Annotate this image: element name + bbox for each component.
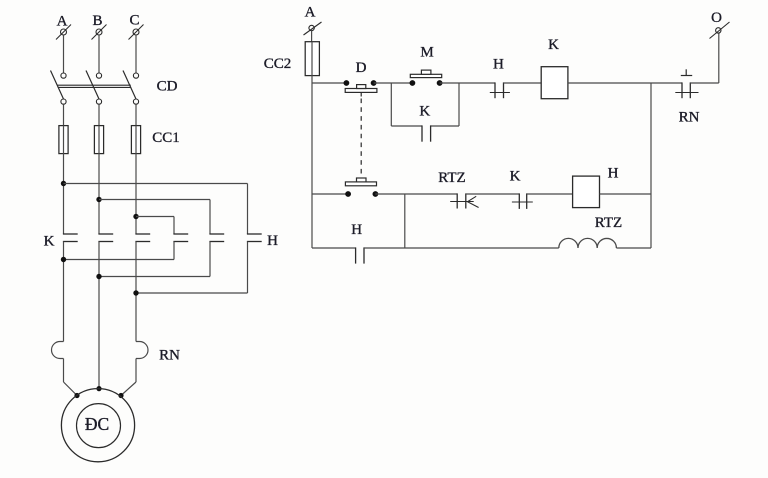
contact H (NC) bbox=[490, 82, 510, 98]
wire bbox=[247, 184, 249, 235]
terminal A (control) bbox=[304, 22, 322, 35]
wire bbox=[440, 82, 495, 84]
overload RN heater left bbox=[52, 342, 64, 359]
fuse CC1 bbox=[94, 126, 103, 154]
wire bbox=[135, 104, 137, 125]
coil H bbox=[573, 176, 600, 208]
pushbutton M bbox=[410, 70, 443, 86]
wire bbox=[63, 154, 65, 234]
svg-text:ĐC: ĐC bbox=[85, 414, 109, 434]
terminal O bbox=[710, 22, 730, 39]
wire bbox=[135, 154, 137, 234]
svg-text:D: D bbox=[356, 60, 367, 76]
wire bbox=[209, 242, 211, 277]
svg-text:K: K bbox=[510, 169, 521, 185]
contact K (aux) bbox=[512, 193, 533, 209]
switch CD upper contact bbox=[96, 73, 101, 78]
wire bbox=[121, 359, 136, 396]
wire bbox=[312, 82, 346, 84]
wire bbox=[690, 82, 719, 84]
wire bbox=[504, 82, 542, 84]
node B label bbox=[92, 13, 102, 29]
wire bbox=[63, 104, 65, 125]
wire bbox=[136, 292, 248, 294]
wire bbox=[458, 83, 460, 126]
svg-text:H: H bbox=[608, 166, 619, 182]
svg-text:B: B bbox=[92, 13, 102, 29]
wire bbox=[98, 242, 100, 390]
contact RTZ label bbox=[438, 170, 465, 186]
contact H (aux NO) bbox=[356, 247, 364, 263]
fuse CC1 bbox=[131, 126, 140, 154]
overload RN label bbox=[159, 348, 180, 364]
switch CD label bbox=[157, 79, 178, 95]
terminal C bbox=[129, 25, 144, 40]
contactor K main contact 2 bbox=[98, 234, 113, 242]
svg-text:H: H bbox=[267, 233, 278, 249]
contact H label bbox=[493, 57, 504, 73]
svg-text:RTZ: RTZ bbox=[595, 215, 622, 231]
wire bbox=[375, 193, 457, 195]
wire bbox=[312, 247, 356, 249]
wire bbox=[390, 83, 392, 126]
svg-text:K: K bbox=[548, 37, 559, 53]
fuse CC2 label bbox=[264, 56, 292, 72]
wire bbox=[98, 154, 100, 234]
wire bbox=[64, 259, 175, 261]
contact RTZ (NC time-delay) bbox=[450, 193, 478, 208]
wire bbox=[312, 193, 348, 195]
contact RN (NC) bbox=[675, 69, 698, 98]
junction bbox=[133, 290, 138, 295]
contactor H contact 2 bbox=[209, 234, 224, 242]
wire bbox=[99, 199, 210, 201]
svg-text:K: K bbox=[44, 234, 55, 250]
junction bbox=[133, 214, 138, 219]
fuse CC1 label bbox=[152, 130, 180, 146]
svg-text:C: C bbox=[129, 13, 139, 29]
svg-text:CC1: CC1 bbox=[152, 130, 180, 146]
wire bbox=[568, 82, 682, 84]
contactor H contact 1 bbox=[173, 234, 188, 242]
contactor K main contact 1 bbox=[63, 234, 78, 242]
switch CD blade bbox=[51, 71, 64, 100]
switch CD blade bbox=[123, 71, 136, 100]
wire bbox=[718, 33, 720, 83]
wire bbox=[135, 35, 137, 73]
switch CD blade bbox=[86, 71, 99, 100]
wire bbox=[616, 247, 651, 249]
wire bbox=[64, 183, 248, 185]
svg-text:A: A bbox=[305, 5, 316, 21]
pushbutton D second contact bbox=[345, 178, 378, 197]
wire bbox=[431, 125, 459, 127]
contact K (seal-in) label bbox=[419, 104, 430, 120]
wire bbox=[209, 200, 211, 235]
node A label bbox=[57, 14, 68, 30]
switch CD linkage bar bbox=[58, 85, 132, 87]
wire bbox=[247, 242, 249, 294]
wire bbox=[374, 82, 413, 84]
wire bbox=[98, 104, 100, 125]
overload RN heater right bbox=[136, 342, 148, 359]
coil K bbox=[541, 67, 568, 99]
wire bbox=[600, 193, 652, 195]
wire bbox=[311, 31, 313, 42]
wire bbox=[98, 35, 100, 73]
contact K (seal-in) bbox=[422, 125, 431, 141]
fuse CC1 bbox=[59, 126, 68, 154]
svg-text:K: K bbox=[419, 104, 430, 120]
junction bbox=[61, 181, 66, 186]
coil K label bbox=[548, 37, 559, 53]
node A label (control) bbox=[305, 5, 316, 21]
wire bbox=[527, 193, 573, 195]
coil RTZ label bbox=[595, 215, 622, 231]
terminal B bbox=[92, 25, 107, 40]
svg-text:RTZ: RTZ bbox=[438, 170, 465, 186]
wire bbox=[99, 276, 210, 278]
pushbutton D linkage (dashed) bbox=[360, 99, 362, 179]
wire bbox=[391, 125, 422, 127]
fuse CC2 bbox=[305, 42, 319, 76]
wire bbox=[64, 359, 78, 396]
contact H (aux) label bbox=[351, 222, 362, 238]
node C label bbox=[129, 13, 139, 29]
pushbutton D bbox=[344, 80, 377, 96]
switch CD upper contact bbox=[133, 73, 138, 78]
contactor K main contact 3 bbox=[135, 234, 150, 242]
wire bbox=[173, 242, 175, 260]
terminal A bbox=[56, 25, 71, 40]
svg-text:RN: RN bbox=[159, 348, 180, 364]
wire bbox=[311, 76, 313, 248]
switch CD lower contact bbox=[96, 99, 101, 104]
pushbutton D label bbox=[356, 60, 367, 76]
wire bbox=[63, 35, 65, 73]
junction bbox=[61, 257, 66, 262]
svg-text:O: O bbox=[711, 10, 722, 26]
wire bbox=[404, 194, 406, 248]
pushbutton M label bbox=[420, 45, 433, 61]
svg-text:M: M bbox=[420, 45, 433, 61]
svg-text:H: H bbox=[493, 57, 504, 73]
coil RTZ (inductor) bbox=[559, 238, 617, 248]
junction bbox=[96, 274, 101, 279]
coil H label bbox=[608, 166, 619, 182]
svg-text:H: H bbox=[351, 222, 362, 238]
switch CD lower contact bbox=[61, 99, 66, 104]
wire bbox=[364, 247, 559, 249]
wire bbox=[466, 193, 520, 195]
svg-text:RN: RN bbox=[679, 110, 700, 126]
motor terminal junctions bbox=[74, 386, 123, 398]
svg-text:A: A bbox=[57, 14, 68, 30]
contact K (aux) label bbox=[510, 169, 521, 185]
contactor H contact 3 bbox=[247, 234, 262, 242]
switch CD upper contact bbox=[61, 73, 66, 78]
switch CD lower contact bbox=[133, 99, 138, 104]
svg-text:CD: CD bbox=[157, 79, 178, 95]
node O label bbox=[711, 10, 722, 26]
wire bbox=[135, 242, 137, 342]
wire bbox=[63, 242, 65, 342]
wire bbox=[173, 217, 175, 235]
junction bbox=[96, 197, 101, 202]
contact RN label bbox=[679, 110, 700, 126]
svg-text:CC2: CC2 bbox=[264, 56, 292, 72]
contactor K label bbox=[44, 234, 55, 250]
motor DC bbox=[61, 389, 134, 462]
contactor H label bbox=[267, 233, 278, 249]
wire bbox=[650, 83, 652, 248]
wire bbox=[136, 216, 174, 218]
